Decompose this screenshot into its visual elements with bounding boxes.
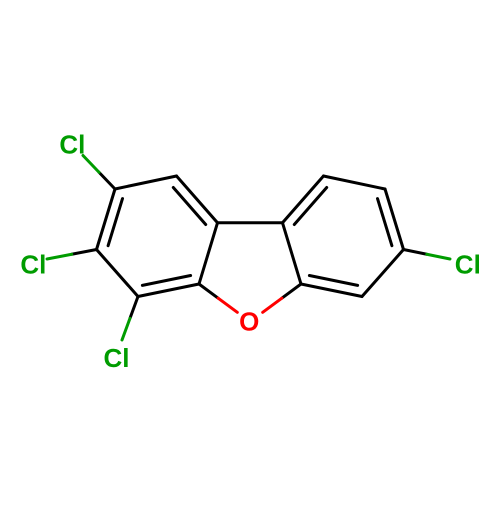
bond C2=C3: [97, 189, 116, 250]
bond C9b=C1: [177, 176, 218, 223]
bond C4-Cl carbon half: [130, 297, 138, 319]
bond C7-C6: [362, 250, 404, 297]
svg-text:Cl: Cl: [59, 130, 85, 160]
bond C4=C4a: [138, 284, 199, 297]
bond C4a-C9b: [199, 223, 218, 284]
bond C2=C3 inner line: [108, 199, 122, 246]
bond C2-Cl chlorine half: [83, 156, 99, 173]
bond C3-C4: [97, 250, 139, 297]
bond C9-C8: [324, 176, 386, 189]
bond C3-Cl chlorine half: [47, 254, 72, 259]
bond C3-Cl carbon half: [72, 250, 97, 255]
svg-text:Cl: Cl: [20, 250, 46, 280]
bond C8=C7: [385, 189, 404, 250]
bond C6=C5a: [301, 284, 362, 297]
bond C5a-C9a: [283, 223, 302, 284]
bond C4a-O oxygen half: [218, 298, 237, 312]
bond C9b-C9a central: [218, 221, 283, 224]
bond C8=C7 inner line: [378, 199, 392, 246]
bond C5a-O carbon half: [282, 284, 301, 298]
svg-text:Cl: Cl: [455, 250, 481, 280]
svg-text:O: O: [239, 306, 259, 336]
bond C4a-O carbon half: [199, 284, 218, 298]
svg-text:Cl: Cl: [104, 343, 130, 373]
bond C4-Cl chlorine half: [122, 318, 130, 340]
bond C4=C4a inner line: [142, 276, 190, 286]
bond C2-Cl carbon half: [99, 172, 115, 189]
bond C1-C2: [115, 176, 177, 189]
bond C9a=C9 inner line: [294, 188, 326, 225]
bond C7-Cl carbon half: [404, 250, 427, 255]
bond C9b=C1 inner line: [173, 188, 205, 225]
bond C5a-O oxygen half: [263, 298, 282, 312]
bond C7-Cl chlorine half: [427, 254, 450, 259]
bond C6=C5a inner line: [309, 276, 357, 286]
bond C9a=C9: [283, 176, 324, 223]
